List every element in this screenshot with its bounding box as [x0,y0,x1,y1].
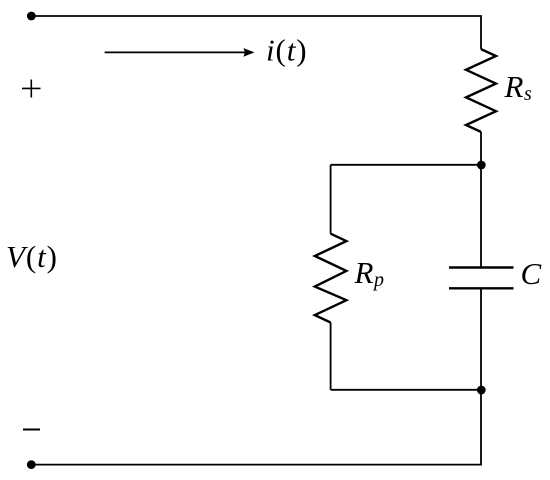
svg-text:V(t): V(t) [6,239,58,274]
svg-text:i(t): i(t) [266,33,308,68]
svg-text:Rp: Rp [354,255,384,291]
svg-text:C: C [521,256,542,291]
svg-text:Rs: Rs [504,69,532,105]
